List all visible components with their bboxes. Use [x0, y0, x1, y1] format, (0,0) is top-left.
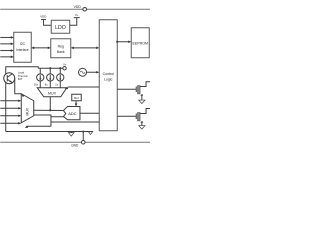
- wire BJT top to V+ rail: [6, 67, 39, 74]
- wire MUX output A to ADC: [34, 109, 64, 111]
- wire BJT output to MUX arrow: [15, 78, 22, 94]
- svg-text:V+: V+: [63, 63, 67, 67]
- wire current MUX output: [49, 97, 51, 111]
- converter ADC: [63, 106, 80, 119]
- wire OSC to Control arrow: [87, 71, 98, 73]
- terminal V+: [74, 17, 80, 19]
- node junction: [59, 67, 61, 69]
- block I2C Interface: [14, 32, 32, 62]
- svg-text:I2C: I2C: [20, 42, 26, 46]
- wire D2- input arrow: [0, 122, 19, 124]
- pin GND: [81, 140, 85, 144]
- current source I2: [49, 68, 51, 74]
- pin V+: [63, 67, 66, 70]
- current source I1: [39, 68, 41, 74]
- current source I3: [59, 68, 61, 74]
- node junction: [49, 109, 51, 111]
- wire I2C to Reg Bank (double arrow): [33, 47, 48, 49]
- wire V+ rail of current sources: [38, 67, 63, 69]
- block EEPROM: [131, 28, 149, 58]
- wire leg to input MUX arrow: [27, 125, 51, 127]
- wire A1 input arrow: [0, 56, 12, 58]
- regulator U1 LDO: [51, 20, 70, 33]
- transistor Q1 local thermal BJT: [4, 73, 15, 84]
- block Control Logic: [99, 20, 117, 131]
- ground: [88, 132, 92, 135]
- wire VDD top rail: [0, 8, 150, 10]
- wire LDO output to V+ terminal: [70, 18, 77, 26]
- wire Ref to ADC arrow: [75, 101, 77, 105]
- svg-text:16x: 16x: [34, 82, 39, 86]
- wire BJT to ground line: [5, 82, 7, 131]
- wire ADC to Control arrow: [80, 112, 99, 114]
- svg-text:Logic: Logic: [104, 77, 113, 81]
- svg-text:1x: 1x: [55, 82, 58, 86]
- ground: [139, 100, 145, 104]
- wire SDA input arrow: [0, 36, 12, 38]
- svg-text:VDD: VDD: [74, 5, 82, 9]
- wire Control to EEPROM arrow: [116, 41, 118, 43]
- wire GND bottom rail: [0, 141, 150, 143]
- transistor Q3 THERM output MOSFET: [117, 115, 136, 117]
- svg-text:MUX: MUX: [25, 107, 29, 115]
- wire D1+ input arrow: [0, 100, 19, 102]
- wire junction to GND pin: [82, 132, 84, 141]
- pin VDD: [83, 7, 87, 11]
- node junction: [82, 130, 84, 132]
- svg-text:ADC: ADC: [68, 111, 77, 116]
- wire MUX output B: [34, 115, 51, 126]
- wire A0 input arrow: [0, 50, 12, 52]
- wire internal ground line: [6, 131, 93, 133]
- ground: [70, 132, 72, 133]
- node junction: [49, 67, 51, 69]
- wire D1- input arrow: [0, 107, 19, 109]
- svg-text:Ref: Ref: [74, 96, 79, 100]
- oscillator OSC: [79, 68, 87, 76]
- wire SCL input arrow: [0, 43, 12, 45]
- svg-text:VDD: VDD: [40, 14, 46, 18]
- reference Ref: [72, 94, 82, 101]
- svg-text:LDO: LDO: [55, 25, 66, 31]
- block Reg Bank: [51, 39, 71, 58]
- svg-text:GND: GND: [71, 143, 79, 147]
- svg-text:V+: V+: [75, 13, 79, 17]
- mux M2 current MUX: [37, 88, 67, 97]
- svg-text:MUX: MUX: [48, 91, 57, 95]
- svg-text:BJT: BJT: [18, 77, 23, 81]
- wire Reg Bank to Control Logic (double arrow): [73, 47, 97, 49]
- svg-text:Interface: Interface: [16, 48, 29, 52]
- ground: [139, 126, 145, 130]
- svg-text:Control: Control: [103, 72, 115, 76]
- svg-text:Reg: Reg: [58, 44, 64, 48]
- wire VDD to LDO: [44, 19, 52, 25]
- wire Control to current MUX select arrow: [68, 86, 100, 88]
- wire to ADC lower input: [51, 116, 64, 118]
- svg-text:EEPROM: EEPROM: [133, 41, 149, 45]
- wire D2+ input arrow: [0, 115, 19, 117]
- mux M1 input MUX: [21, 94, 34, 123]
- svg-text:8x: 8x: [45, 82, 48, 86]
- transistor Q2 ALERT output MOSFET: [117, 88, 136, 90]
- svg-text:Bank: Bank: [57, 50, 65, 54]
- wire Control to MUX select: [51, 121, 99, 123]
